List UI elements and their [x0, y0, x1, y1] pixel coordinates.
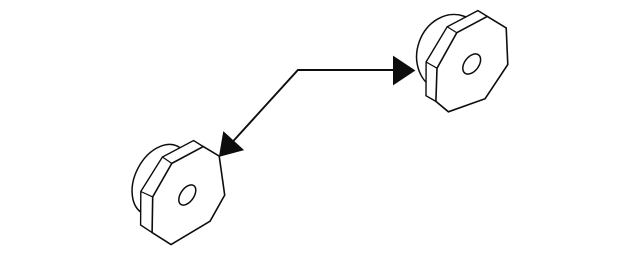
- left plug: band outline: [141, 141, 204, 233]
- arrow shaft horizontal: [222, 70, 397, 154]
- arrowhead right: [393, 56, 415, 86]
- left plug: back flange arc: [121, 135, 201, 226]
- right plug: back flange arc: [406, 5, 495, 101]
- right plug: front octagon face: [436, 16, 508, 111]
- arrowhead left: [219, 131, 244, 157]
- right plug: band connector L: [426, 62, 437, 68]
- right plug: band outline: [426, 11, 487, 102]
- right plug: side band mask: [426, 11, 487, 102]
- left plug: band connector TL: [162, 157, 171, 163]
- right plug: center hole: [459, 51, 484, 78]
- left plug: side band mask: [141, 141, 204, 233]
- left plug: front octagon face: [152, 147, 225, 245]
- left plug: band connector L: [141, 192, 153, 197]
- right plug: band connector TL: [447, 27, 457, 33]
- left plug: center hole: [175, 182, 199, 208]
